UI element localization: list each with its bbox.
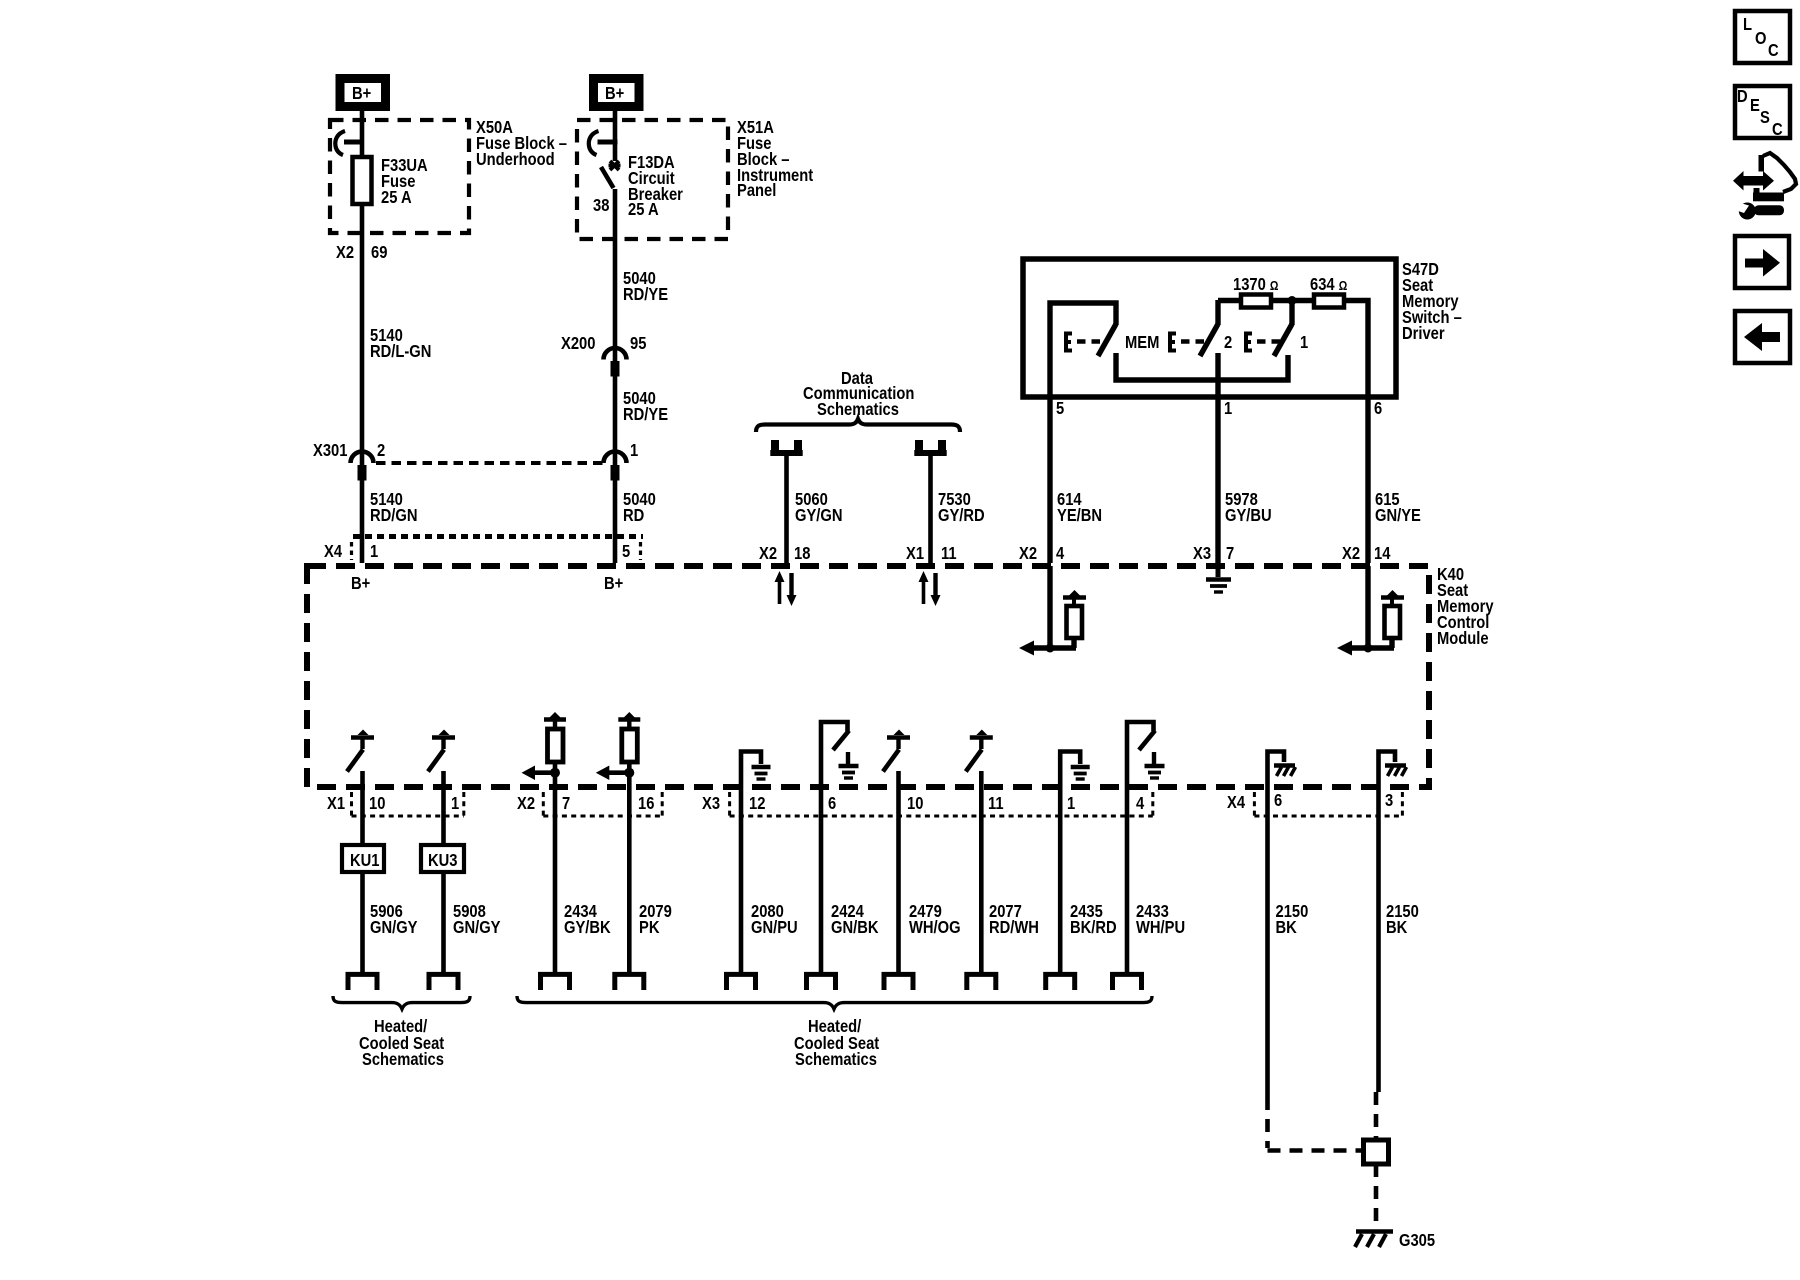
svg-text:X4: X4 [324,542,343,562]
svg-text:GN/GY: GN/GY [453,918,501,938]
svg-text:G305: G305 [1399,1231,1435,1251]
node B+ (module pin 1) [351,574,370,594]
brace Heated/Cooled Seat (right) [517,996,1152,1009]
svg-text:X4: X4 [1227,793,1246,813]
pin labels X2 7 16 [517,794,654,814]
wire between resistors [1271,298,1314,303]
wire label 5978 GY/BU [1225,490,1272,526]
svg-text:7: 7 [1226,544,1234,564]
power node B+ (right) [594,79,640,107]
connector row X4 [1254,792,1402,816]
switch S47D outline [1023,259,1396,397]
svg-text:X3: X3 [702,794,720,814]
terminal (wire 5906) [348,974,377,990]
svg-text:C: C [1768,41,1779,61]
connector X301-1 arc [604,452,627,463]
svg-text:BK: BK [1276,918,1297,938]
svg-text:GY/GN: GY/GN [795,506,843,526]
back arrow icon [1735,311,1790,363]
label G305 [1399,1231,1435,1251]
connector X200 arc [604,348,627,360]
wire label 2080 GN/PU [751,902,798,938]
wire label 5140 RD/GN [370,490,417,526]
label F13DA Circuit Breaker 25 A [628,153,683,220]
wire 2150 BK (pin X4-6) [1265,787,1270,1097]
pin label X2 69 [336,243,387,263]
wire 5060 GY/GN [784,456,789,563]
wire to resistor 1370 [1218,298,1241,303]
svg-text:RD/YE: RD/YE [623,405,668,425]
svg-text:GN/GY: GN/GY [370,918,418,938]
splice block [1364,1140,1389,1164]
junction node [1288,296,1297,305]
connector hook symbol (X51A) [589,131,618,155]
wire label 5140 RD/L-GN [370,326,431,362]
wire 2424 GN/BK [819,787,824,973]
svg-text:GY/BU: GY/BU [1225,506,1272,526]
wire pin X1-10 to KU1 [360,787,365,845]
svg-text:Schematics: Schematics [362,1050,444,1070]
terminal (wire 2079) [615,974,644,990]
wire 2434 GY/BK [553,787,558,973]
svg-text:RD/GN: RD/GN [370,506,417,526]
node B+ (module pin 5) [604,574,623,594]
wire 5908 GN/GY [441,872,446,973]
switch blade (set switch) [1098,324,1116,356]
feedback resistor (pin X2-16) [596,712,641,787]
switch blade (switch 1) [1274,324,1292,356]
LOC navigation icon [1735,11,1790,63]
wire 5040 RD/YE (upper) [613,189,618,362]
switch (pin X1-10) [347,730,374,772]
wire label 5040 RD/YE upper [623,269,668,305]
terminal (wire 2434) [541,974,570,990]
ground (pin X3-7) [1206,566,1231,592]
wire 615 GN/YE [1365,397,1370,563]
wire stub pin X1-10 [360,771,365,787]
wire/pot feedback (pin X2-4) [1019,566,1086,656]
svg-text:GY/BK: GY/BK [564,918,611,938]
svg-text:X3: X3 [1193,544,1211,564]
label Data Communication Schematics [803,369,914,420]
svg-text:95: 95 [630,334,646,354]
terminal (wire 2433) [1113,974,1142,990]
wire 5140 RD/GN [360,480,365,563]
svg-text:GY/RD: GY/RD [938,506,985,526]
wire 2080 GN/PU [739,787,744,973]
svg-text:X2: X2 [1019,544,1037,564]
connector label X301 2 [313,441,385,461]
svg-text:Panel: Panel [737,181,776,201]
svg-text:L: L [1743,15,1752,35]
module K40 outline [307,566,1429,787]
svg-text:38: 38 [593,196,609,216]
svg-text:X301: X301 [313,441,347,461]
ground (pin X3-1) [1060,752,1090,788]
wire/pot feedback (pin X2-14) [1337,566,1404,656]
svg-text:GN/BK: GN/BK [831,918,879,938]
wire B+ to circuit breaker F13DA [613,107,618,161]
svg-text:11: 11 [941,544,957,564]
svg-text:10: 10 [907,794,923,814]
pin labels 5 1 6 [1056,399,1382,419]
connector line X4/X2 (top of K40) [352,537,644,561]
svg-text:1: 1 [630,441,638,461]
svg-text:B+: B+ [351,574,370,594]
connector label X200 95 [561,334,646,354]
wire label 5060 GY/GN [795,490,843,526]
svg-text:Schematics: Schematics [795,1050,877,1070]
label X50A Fuse Block - Underhood [476,118,567,170]
switch actuator bracket (set switch) [1066,334,1072,351]
wire 2077 RD/WH [979,787,984,973]
wire label 2077 RD/WH [989,902,1039,938]
label memory position 2 [1224,333,1232,353]
wire stub pin X3-11 [979,771,984,787]
pin label X1 11 [906,544,957,564]
svg-text:25 A: 25 A [628,200,659,220]
switch blade (MEM switch) [1200,324,1218,356]
svg-text:X1: X1 [906,544,924,564]
dashed splice wire (left) [1268,1097,1362,1151]
connector X301-2 pin [358,465,367,481]
svg-text:RD/YE: RD/YE [623,285,668,305]
terminal (wire 2080) [727,974,756,990]
svg-text:B+: B+ [604,574,623,594]
svg-text:25 A: 25 A [381,188,412,208]
forward arrow icon [1735,236,1789,288]
wire 2435 BK/RD [1058,787,1063,973]
switch to ground (pin X3-6) [821,722,859,787]
pin label X2 4 [1019,544,1065,564]
actuator dashes (MEM switch) [1181,339,1209,343]
label S47D Seat Memory Switch - Driver [1402,260,1462,344]
svg-text:O: O [1755,29,1767,49]
pin label X2 14 [1342,544,1391,564]
chassis ground G305 [1355,1232,1393,1248]
svg-text:Underhood: Underhood [476,150,555,170]
svg-text:X2: X2 [759,544,777,564]
wire label 614 YE/BN [1057,490,1102,526]
svg-text:1: 1 [1300,333,1308,353]
wire label 5908 GN/GY [453,902,501,938]
wire label 2479 WH/OG [909,902,961,938]
brace Data Communication [756,419,960,432]
pin label X301 1 [630,441,638,461]
svg-text:6: 6 [828,794,836,814]
pin labels X4 1 / 5 [324,542,630,562]
feedback resistor (pin X2-7) [522,712,567,787]
wire 7530 GY/RD [928,456,933,563]
switch actuator bracket (MEM switch) [1170,334,1176,351]
svg-text:1: 1 [1067,794,1075,814]
wire 5040 RD/YE (lower) [613,376,618,466]
svg-text:BK/RD: BK/RD [1070,918,1117,938]
wire 5140 RD/L-GN [360,204,365,466]
svg-text:5: 5 [1056,399,1064,419]
svg-text:5: 5 [622,542,630,562]
terminal (wire 2424) [807,974,836,990]
wire 2079 PK [627,787,632,973]
svg-text:B+: B+ [605,84,624,104]
switch (pin X3-11) [966,730,993,772]
wire label 615 GN/YE [1375,490,1421,526]
wire label 2150 BK (left) [1276,902,1309,938]
chassis ground (pin X4-6) [1268,752,1296,788]
svg-text:YE/BN: YE/BN [1057,506,1102,526]
terminal (wire 2077) [967,974,996,990]
svg-text:X200: X200 [561,334,595,354]
svg-text:KU3: KU3 [428,851,457,871]
fuse F33UA 25 A [353,157,372,204]
svg-text:1: 1 [1224,399,1232,419]
wire label 5040 RD/YE lower [623,389,668,425]
svg-text:E: E [1750,96,1760,116]
dashed connector link X301 [376,461,603,465]
svg-text:4: 4 [1136,794,1145,814]
svg-text:2: 2 [377,441,385,461]
svg-text:X2: X2 [1342,544,1360,564]
svg-text:B+: B+ [352,84,371,104]
terminal (wire 2479) [884,974,913,990]
wire label 2433 WH/PU [1136,902,1185,938]
svg-text:1: 1 [370,542,378,562]
wire 614 YE/BN [1047,397,1052,563]
svg-text:16: 16 [638,794,654,814]
wire 5040 RD [613,480,618,563]
fuse block X50A outline [330,120,469,233]
resistor 1370 ohm [1241,295,1271,308]
svg-text:RD/WH: RD/WH [989,918,1039,938]
svg-text:PK: PK [639,918,660,938]
value label 634 ohm [1310,275,1348,295]
wire label 5040 RD [623,490,656,526]
svg-text:6: 6 [1374,399,1382,419]
component KU1 [342,845,384,872]
bidirectional arrows (pin 18) [775,571,797,606]
actuator dashes (set switch) [1077,339,1106,343]
svg-text:11: 11 [988,794,1004,814]
fuse block X51A outline [577,120,728,239]
wire stub pin X3-10 [896,771,901,787]
DESC navigation icon [1735,86,1790,139]
svg-text:3: 3 [1385,791,1393,811]
ground (pin X3-12) [741,752,771,788]
svg-text:S: S [1760,108,1770,128]
connector hook symbol (X50A) [335,131,364,155]
svg-text:634 Ω: 634 Ω [1310,275,1348,295]
component KU3 [421,845,464,872]
wire label 7530 GY/RD [938,490,985,526]
power node B+ (left) [340,79,386,107]
switch (pin X1-1) [428,730,455,772]
pin labels X3 12 6 10 11 1 4 [702,794,1145,814]
pin label X3 7 [1193,544,1234,564]
wire stub pin X1-1 [441,771,446,787]
connector X200 pin [611,361,620,377]
wire label 5906 GN/GY [370,902,418,938]
label K40 Seat Memory Control Module [1437,565,1494,649]
brace Heated/Cooled Seat (left) [333,996,470,1009]
wire 5978 GY/BU [1215,397,1220,563]
svg-text:GN/YE: GN/YE [1375,506,1421,526]
chassis ground (pin X4-3) [1379,752,1407,788]
label F33UA Fuse 25 A [381,156,428,208]
pin label 38 [593,196,609,216]
dashed splice wire (right) [1374,1092,1379,1138]
bidirectional arrows (pin 11) [919,571,941,606]
svg-text:RD/L-GN: RD/L-GN [370,342,431,362]
wire label 2434 GY/BK [564,902,611,938]
dashed wire to G305 [1374,1164,1379,1228]
wire 2150 BK (pin X4-3) [1376,787,1381,1092]
wire 5906 GN/GY [360,872,365,973]
connector X301-2 arc [351,452,374,463]
pin labels X1 10 1 [327,794,459,814]
label memory position 1 [1300,333,1308,353]
switch feed from pin 5 [1050,303,1116,397]
circuit breaker F13DA 25 A [601,161,621,188]
svg-text:C: C [1772,120,1783,140]
label X51A Fuse Block - Instrument Panel [737,118,814,201]
svg-text:10: 10 [369,794,385,814]
terminal (wire 5908) [429,974,458,990]
pin label X2 18 [759,544,810,564]
label MEM [1125,333,1159,353]
svg-text:MEM: MEM [1125,333,1159,353]
connector row X1 [352,792,464,816]
svg-text:Module: Module [1437,629,1489,649]
terminal (wire 2435) [1046,974,1075,990]
connector row X2 [543,792,662,816]
wire resistor 634 to pin 6 [1344,301,1368,398]
svg-text:7: 7 [562,794,570,814]
label Heated/Cooled Seat Schematics (left) [359,1017,445,1070]
fixed contact (MEM switch) [1215,300,1220,325]
actuator dashes (switch 1) [1257,339,1285,343]
resistor 634 ohm [1314,295,1344,308]
wire label 2150 BK (right) [1386,902,1419,938]
label Heated/Cooled Seat Schematics (right) [794,1017,880,1070]
terminal (serial data right) [914,440,946,453]
connector X301-1 pin [611,465,620,481]
svg-text:X2: X2 [517,794,535,814]
connector row X3 [730,792,1153,816]
wire MEM wiper to pin 1 [1215,353,1220,397]
svg-text:1: 1 [451,794,459,814]
switch actuator bracket (switch 1) [1246,334,1252,351]
wire label 2079 PK [639,902,672,938]
svg-text:X2: X2 [336,243,354,263]
pin labels X4 6 3 [1227,791,1393,813]
svg-text:WH/PU: WH/PU [1136,918,1185,938]
svg-text:WH/OG: WH/OG [909,918,961,938]
wire label 2435 BK/RD [1070,902,1117,938]
fixed contact (switch 1) [1289,300,1294,325]
switch (pin X3-10) [883,730,910,772]
terminal (serial data left) [770,440,802,453]
svg-text:Driver: Driver [1402,324,1445,344]
wire 2479 WH/OG [896,787,901,973]
svg-text:BK: BK [1386,918,1407,938]
svg-text:RD: RD [623,506,644,526]
value label 1370 ohm [1233,275,1279,295]
svg-text:KU1: KU1 [350,851,379,871]
svg-text:X1: X1 [327,794,345,814]
wire 2433 WH/PU [1125,787,1130,973]
svg-text:14: 14 [1374,544,1391,564]
switch to ground (pin X3-4) [1127,722,1165,787]
svg-text:69: 69 [371,243,387,263]
svg-text:4: 4 [1056,544,1065,564]
svg-text:D: D [1737,87,1748,107]
wire label 2424 GN/BK [831,902,879,938]
movable contact bus [1116,353,1288,380]
svg-text:12: 12 [749,794,765,814]
wire B+ to fuse F33UA [360,107,365,157]
svg-text:18: 18 [794,544,810,564]
svg-text:2: 2 [1224,333,1232,353]
wire pin X1-1 to KU3 [441,787,446,845]
svg-text:GN/PU: GN/PU [751,918,798,938]
svg-text:1370 Ω: 1370 Ω [1233,275,1279,295]
swap-wrench icon [1733,153,1796,220]
svg-text:6: 6 [1274,791,1282,811]
